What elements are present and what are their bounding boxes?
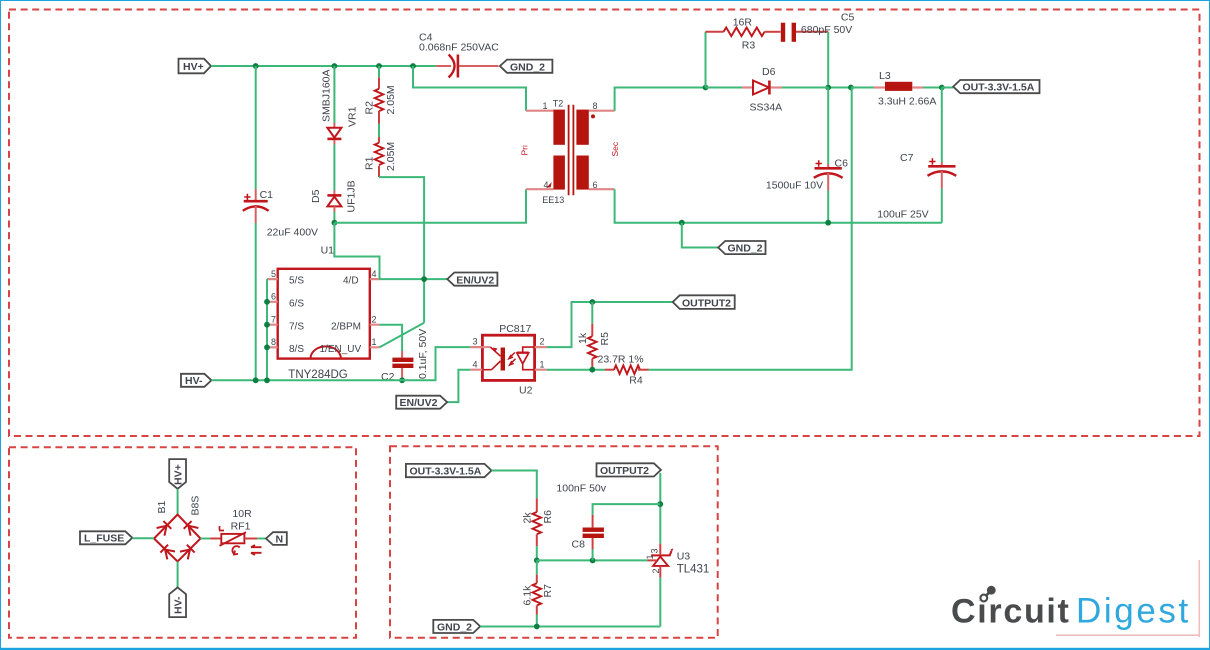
wire to GND_2 flag mid: [682, 223, 718, 248]
svg-text:0.1uF, 50V: 0.1uF, 50V: [417, 329, 429, 379]
svg-text:GND_2: GND_2: [437, 622, 472, 634]
svg-text:SS34A: SS34A: [750, 102, 783, 114]
wire L_FUSE to bridge: [132, 537, 154, 539]
net flag N: [266, 532, 287, 546]
wire U2 pin2 to OUTPUT2: [547, 302, 673, 347]
svg-text:1500uF 10V: 1500uF 10V: [766, 180, 823, 192]
svg-text:C7: C7: [900, 152, 914, 164]
wire RF1 to N: [257, 538, 266, 540]
bridge rectifier frame (red dashed): [9, 447, 356, 638]
wire feedback mid rail: [537, 559, 648, 561]
svg-text:OUTPUT2: OUTPUT2: [682, 297, 731, 309]
svg-text:C8: C8: [572, 538, 586, 550]
svg-text:D6: D6: [762, 66, 776, 78]
wire T2 primary top: [413, 66, 526, 111]
svg-text:4: 4: [544, 180, 549, 190]
wire HV- rail: [211, 347, 470, 380]
svg-text:OUTPUT2: OUTPUT2: [600, 465, 649, 477]
capacitor C8 100nF 50v: [556, 483, 606, 561]
svg-text:1k: 1k: [577, 332, 589, 344]
wire R1 to EN/UV2 net: [379, 177, 424, 323]
svg-text:3.3uH 2.66A: 3.3uH 2.66A: [878, 96, 936, 108]
svg-text:1: 1: [372, 337, 377, 347]
wire U1 pin2 to C2: [380, 325, 403, 351]
resistor R2 2.05M: [364, 66, 398, 124]
svg-text:EE13: EE13: [542, 195, 564, 205]
node U1 pin7: [264, 322, 270, 328]
svg-text:C5: C5: [841, 11, 855, 23]
wire OUT flag to R6: [492, 471, 537, 499]
svg-text:GND_2: GND_2: [510, 61, 545, 73]
svg-text:OUT-3.3V-1.5A: OUT-3.3V-1.5A: [963, 82, 1035, 94]
node HV-/U1: [264, 377, 270, 383]
svg-text:HV-: HV-: [172, 596, 184, 614]
svg-text:1: 1: [543, 101, 548, 111]
svg-text:VR1: VR1: [347, 106, 359, 127]
net flag GND_2 mid: [718, 241, 765, 255]
node HV+/VR1 junction: [332, 63, 338, 69]
capacitor C2 0.1uF 50V: [381, 329, 429, 383]
wire OUTPUT2 to TL431 cathode: [659, 473, 661, 544]
svg-text:1: 1: [540, 359, 545, 369]
net flag EN/UV2 bottom: [396, 396, 447, 409]
svg-text:4: 4: [372, 269, 377, 279]
bridge rectifier B1 B8S: [154, 496, 202, 562]
net flag HV+: [179, 59, 212, 74]
svg-text:680pF 50V: 680pF 50V: [801, 24, 852, 36]
shunt regulator U3 TL431: [645, 544, 709, 627]
wire bridge to RF1: [201, 538, 211, 540]
svg-text:GND_2: GND_2: [728, 243, 763, 255]
node U1 pin8: [264, 344, 270, 350]
svg-text:2: 2: [540, 337, 545, 347]
node R6/R7 junction: [534, 558, 540, 564]
wire L3 to OUT flag: [942, 87, 953, 89]
node C6 bottom junction: [825, 220, 831, 226]
svg-text:U1: U1: [321, 245, 335, 257]
svg-text:TNY284DG: TNY284DG: [288, 369, 347, 381]
svg-text:EN/UV2: EN/UV2: [456, 274, 494, 286]
node sec/R3 junction: [703, 85, 709, 91]
svg-text:3: 3: [473, 337, 478, 347]
net flag HV+ (bridge box): [169, 459, 186, 489]
wire U2 pin1 row: [547, 369, 605, 371]
svg-text:C6: C6: [835, 158, 849, 170]
node HV+/C1 junction: [253, 63, 259, 69]
watermark faint lines: [1056, 560, 1199, 637]
wire diagonal to U1 pin1: [380, 323, 425, 348]
svg-text:R4: R4: [629, 374, 643, 386]
wire HV+ rail: [211, 65, 436, 67]
svg-text:L_FUSE: L_FUSE: [84, 533, 124, 545]
resistor R4 23.7R 1%: [598, 354, 649, 387]
wire R4 to top rail: [649, 88, 852, 370]
resistor R1 2.05M: [364, 137, 398, 177]
svg-text:6.1k: 6.1k: [522, 585, 534, 606]
resistor R6 2k: [522, 498, 555, 560]
svg-text:D5: D5: [310, 189, 322, 203]
svg-text:22uF 400V: 22uF 400V: [267, 227, 318, 239]
node HV-/C1: [253, 377, 259, 383]
svg-text:Circuit: Circuit: [951, 593, 1071, 631]
resistor R7 6.1k: [522, 560, 555, 626]
feedback network frame (red dashed): [390, 446, 718, 638]
wire T2 primary bottom: [334, 189, 526, 223]
svg-text:UF1JB: UF1JB: [346, 180, 358, 212]
diode VR1 SMBJ160A: [321, 66, 359, 145]
svg-text:Pri: Pri: [520, 145, 530, 156]
node R7/GND junction: [534, 624, 540, 630]
svg-text:B8S: B8S: [190, 496, 202, 516]
wire bridge to HV-: [177, 562, 179, 588]
svg-text:5/S: 5/S: [289, 276, 304, 287]
svg-text:8: 8: [593, 101, 598, 111]
capacitor C7 100uF 25V: [877, 88, 956, 223]
wire U1 left pins bus: [266, 279, 268, 380]
net flag GND_2 (feedback box): [433, 620, 480, 634]
node C2/HV- junction: [399, 377, 405, 383]
node EN/UV2 junction: [421, 276, 427, 282]
wire T2 secondary top rail: [615, 88, 873, 111]
svg-text:PC817: PC817: [499, 323, 531, 335]
svg-text:U2: U2: [519, 384, 533, 396]
net flag HV- (bridge box): [169, 587, 186, 617]
svg-text:HV+: HV+: [172, 464, 184, 485]
node R5/R4 junction: [589, 367, 595, 373]
transformer T2 EE13: [520, 99, 621, 206]
node HV+/R2 junction: [376, 63, 382, 69]
IC U1 TNY284DG: [267, 245, 380, 381]
svg-text:100uF 25V: 100uF 25V: [877, 209, 928, 221]
svg-text:2: 2: [651, 568, 661, 573]
wire to C8: [593, 504, 661, 515]
net flag OUT-3.3V-1.5A: [953, 80, 1039, 94]
capacitor C5 680pF 50V: [781, 11, 855, 85]
wire C1 vertical: [255, 66, 257, 189]
resistor R5 1k: [577, 302, 611, 370]
wire VR1 to D5: [333, 145, 335, 191]
main schematic frame (red dashed): [9, 10, 1200, 437]
svg-text:R7: R7: [542, 584, 554, 598]
svg-text:R3: R3: [742, 40, 756, 52]
node L3/R4 junction: [848, 85, 854, 91]
svg-text:7: 7: [271, 315, 276, 325]
svg-text:U3: U3: [677, 551, 691, 563]
inductor L3 3.3uH 2.66A: [851, 70, 942, 108]
wire U1 pin4 to EN/UV2 flag: [380, 278, 448, 280]
svg-text:6/S: 6/S: [289, 298, 304, 309]
net flag GND_2 top: [500, 60, 553, 74]
diode D6 SS34A: [706, 66, 829, 114]
capacitor C4 0.068nF 250VAC: [419, 32, 499, 78]
optocoupler U2 PC817: [470, 323, 547, 397]
svg-text:B1: B1: [156, 500, 168, 513]
wire D5 to node: [333, 212, 335, 223]
net flag OUTPUT2 (feedback box): [597, 463, 661, 477]
svg-text:R1: R1: [364, 156, 376, 170]
node L3/C7 junction: [939, 85, 945, 91]
wire C1 to HV- rail: [255, 223, 257, 380]
svg-text:R2: R2: [364, 101, 376, 115]
svg-text:23.7R 1%: 23.7R 1%: [598, 354, 644, 366]
diode D5 UF1JB: [310, 180, 357, 212]
svg-text:Digest: Digest: [1076, 592, 1191, 631]
node TL431/C8 top junction: [657, 501, 663, 507]
svg-text:8/S: 8/S: [289, 344, 304, 355]
wire R2 to R1: [378, 124, 380, 138]
svg-text:4: 4: [473, 359, 478, 369]
svg-text:16R: 16R: [733, 17, 753, 29]
svg-text:SMBJ160A: SMBJ160A: [321, 69, 333, 122]
svg-text:R5: R5: [599, 332, 611, 346]
svg-text:4/D: 4/D: [343, 276, 359, 287]
resistor R3 16R: [706, 17, 781, 88]
CircuitDigest logo: [951, 586, 1191, 631]
wire D5 node to U1 drain pin4: [334, 223, 379, 279]
node sec bottom / GND junction: [679, 220, 685, 226]
svg-text:Sec: Sec: [610, 141, 620, 156]
svg-text:6: 6: [593, 180, 598, 190]
svg-text:8: 8: [271, 337, 276, 347]
svg-text:7/S: 7/S: [289, 321, 304, 332]
node HV+/T2 junction: [410, 63, 416, 69]
node D6/C6 junction: [825, 85, 831, 91]
net flag OUT-3.3V-1.5A (feedback box): [406, 464, 492, 478]
wire U2 pin4 to EN/UV2 bottom: [447, 370, 470, 402]
svg-text:R6: R6: [542, 510, 554, 524]
svg-text:5: 5: [271, 269, 276, 279]
svg-text:2k: 2k: [522, 512, 534, 524]
svg-text:HV-: HV-: [185, 375, 203, 387]
wire secondary bottom rail: [615, 189, 942, 223]
svg-text:TL431: TL431: [677, 564, 710, 576]
svg-text:HV+: HV+: [183, 61, 204, 73]
svg-text:2/BPM: 2/BPM: [331, 321, 361, 332]
svg-text:RF1: RF1: [231, 521, 251, 533]
net flag HV-: [181, 374, 211, 387]
svg-text:2.05M: 2.05M: [385, 85, 397, 114]
svg-text:1/EN_UV: 1/EN_UV: [320, 344, 362, 355]
node D5/T2/U1 junction: [332, 220, 338, 226]
svg-text:C1: C1: [260, 189, 274, 201]
fuse RF1 10R: [210, 508, 261, 555]
svg-text:EN/UV2: EN/UV2: [400, 397, 438, 409]
node C8 bottom junction: [590, 558, 596, 564]
svg-text:2.05M: 2.05M: [385, 142, 397, 171]
svg-text:OUT-3.3V-1.5A: OUT-3.3V-1.5A: [410, 466, 482, 478]
node U1 pin6: [264, 299, 270, 305]
wire feedback GND rail: [480, 626, 660, 628]
svg-text:1: 1: [645, 554, 655, 559]
capacitor C1 22uF 400V: [243, 189, 318, 239]
net flag EN/UV2 top: [447, 273, 497, 287]
svg-text:10R: 10R: [232, 508, 252, 520]
svg-text:N: N: [276, 534, 284, 546]
svg-text:2: 2: [372, 315, 377, 325]
svg-text:0.068nF 250VAC: 0.068nF 250VAC: [419, 42, 499, 54]
node R5 top junction: [589, 299, 595, 305]
svg-text:L3: L3: [879, 70, 891, 82]
svg-text:6: 6: [271, 292, 276, 302]
net flag L_FUSE: [80, 531, 132, 544]
svg-text:3: 3: [650, 548, 660, 553]
wire HV+ to bridge: [177, 489, 179, 515]
net flag OUTPUT2: [673, 295, 735, 309]
svg-text:100nF 50v: 100nF 50v: [556, 483, 606, 495]
svg-text:T2: T2: [553, 99, 564, 109]
capacitor C6 1500uF 10V: [766, 88, 848, 223]
